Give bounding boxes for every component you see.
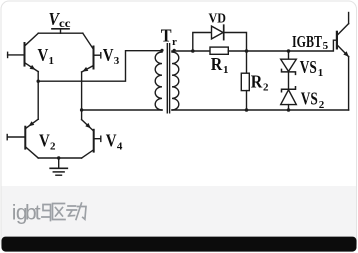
svg-text:R: R bbox=[251, 72, 263, 92]
node VS top bbox=[287, 49, 291, 53]
node A bbox=[191, 49, 195, 53]
zener VS2 bbox=[281, 87, 297, 105]
transistor V2 bbox=[7, 119, 59, 158]
zener VS1 bbox=[281, 59, 297, 74]
svg-text:2: 2 bbox=[319, 99, 325, 111]
wire R1 to node B bbox=[228, 50, 246, 52]
svg-text:2: 2 bbox=[50, 141, 56, 153]
wire VD branch down right bbox=[224, 33, 247, 52]
label V1 bbox=[38, 45, 55, 67]
diode VD bbox=[212, 25, 224, 39]
svg-text:IGBT: IGBT bbox=[292, 32, 322, 51]
svg-text:1: 1 bbox=[318, 67, 324, 79]
node R2 bottom bbox=[245, 108, 249, 112]
polarity dot secondary bbox=[173, 49, 176, 52]
svg-text:VS: VS bbox=[300, 57, 317, 77]
svg-text:T: T bbox=[161, 26, 172, 46]
node V1/V2 junction bbox=[37, 80, 40, 83]
label IGBT5 bbox=[292, 32, 329, 52]
Vcc terminal bar bbox=[52, 28, 69, 30]
label VS2 bbox=[301, 89, 325, 111]
svg-text:cc: cc bbox=[59, 16, 71, 30]
wire node A to R1 bbox=[193, 50, 210, 52]
wire VS1 top bbox=[288, 51, 290, 59]
resistor R2 bbox=[241, 73, 249, 90]
transistor V1 bbox=[8, 33, 39, 71]
transistor V4 bbox=[59, 120, 101, 158]
node VS2 bottom bbox=[287, 108, 291, 112]
svg-text:1: 1 bbox=[49, 55, 55, 67]
wire VD branch up left bbox=[193, 33, 212, 52]
svg-text:2: 2 bbox=[263, 82, 269, 94]
wire top rail bbox=[38, 32, 83, 34]
svg-text:R: R bbox=[211, 54, 223, 74]
wire Vcc stub bbox=[60, 29, 62, 33]
wire VS2 bottom bbox=[288, 105, 290, 110]
IGBT bbox=[337, 13, 349, 111]
wire bridge output A to primary top bbox=[38, 51, 162, 81]
wire node B to VS node bbox=[247, 50, 289, 52]
ground bbox=[50, 158, 67, 175]
label V4 bbox=[106, 131, 123, 153]
bottom black bar bbox=[2, 237, 357, 252]
svg-text:V: V bbox=[103, 45, 114, 65]
transformer core bbox=[167, 44, 169, 113]
wire secondary top to node A bbox=[172, 50, 193, 52]
caption glyph 驱 (hand-drawn) bbox=[42, 204, 65, 221]
svg-text:VS: VS bbox=[301, 89, 318, 109]
svg-text:4: 4 bbox=[117, 141, 123, 153]
resistor R1 bbox=[210, 47, 228, 54]
wire VS1 to VS2 bbox=[288, 72, 290, 89]
wire R2 top bbox=[246, 51, 248, 73]
label VD bbox=[209, 11, 226, 26]
transistor V3 bbox=[82, 33, 101, 72]
label Tr bbox=[161, 26, 177, 48]
node B bbox=[245, 49, 249, 53]
svg-text:V: V bbox=[39, 131, 50, 151]
caption glyph 动 (hand-drawn) bbox=[67, 203, 86, 220]
label Vcc bbox=[49, 9, 72, 30]
node emitter common / ground junction bbox=[57, 156, 60, 159]
node V3/V4 junction bbox=[80, 108, 83, 111]
wire bridge output B to primary bottom bbox=[82, 109, 162, 111]
svg-text:V: V bbox=[106, 131, 117, 151]
transformer Tr secondary winding bbox=[172, 52, 179, 110]
label V2 bbox=[39, 131, 56, 153]
wire bottom rail bbox=[172, 109, 349, 111]
polarity dot primary bbox=[160, 49, 163, 52]
svg-text:r: r bbox=[172, 36, 177, 48]
wire V1 emitter to V2 bbox=[37, 72, 39, 120]
wire VS node to IGBT gate jog bbox=[289, 40, 337, 51]
svg-text:V: V bbox=[38, 45, 49, 65]
label R1 bbox=[211, 54, 229, 76]
caption bar bbox=[2, 186, 357, 237]
svg-text:VD: VD bbox=[209, 11, 226, 26]
label VS1 bbox=[300, 57, 324, 79]
label V3 bbox=[103, 45, 120, 67]
svg-text:igbt: igbt bbox=[12, 201, 41, 224]
wire V3 emitter to V4 bbox=[81, 72, 83, 120]
svg-text:1: 1 bbox=[223, 64, 229, 76]
svg-text:3: 3 bbox=[114, 55, 120, 67]
transformer Tr primary winding bbox=[155, 52, 162, 110]
label R2 bbox=[251, 72, 269, 94]
wire R2 bottom bbox=[246, 91, 248, 110]
svg-text:5: 5 bbox=[323, 40, 329, 52]
